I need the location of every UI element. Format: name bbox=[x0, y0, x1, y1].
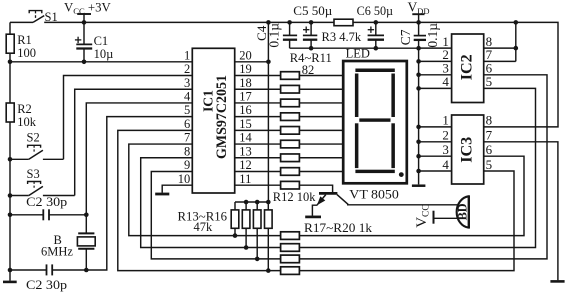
ground at rail bottom bbox=[412, 184, 426, 187]
wire pin8 bus2 bbox=[141, 88, 536, 247]
svg-text:C2 30p: C2 30p bbox=[26, 195, 67, 209]
svg-text:IC3: IC3 bbox=[458, 137, 475, 163]
svg-text:4: 4 bbox=[442, 74, 449, 89]
svg-text:R12 10k: R12 10k bbox=[273, 190, 316, 204]
svg-text:1: 1 bbox=[442, 113, 449, 128]
label R2 value 10k bbox=[17, 102, 37, 129]
wire R12 to VT base bbox=[299, 185, 332, 192]
resistor R11 bbox=[281, 168, 300, 176]
label GMS97C2051 bbox=[214, 75, 230, 159]
LED display box bbox=[343, 61, 407, 183]
wire top rail S1 to R3 bbox=[44, 21, 334, 23]
svg-text:9: 9 bbox=[184, 158, 190, 172]
label C4 value 0.1u bbox=[267, 23, 282, 48]
svg-text:7: 7 bbox=[486, 128, 493, 143]
wire pin10 to ground bbox=[162, 185, 192, 193]
resistor R1 bbox=[6, 34, 14, 53]
wire VT collector to buzzer bbox=[347, 204, 458, 206]
LED segment c bbox=[391, 123, 395, 168]
label LED bbox=[346, 47, 370, 61]
svg-text:10µ: 10µ bbox=[94, 47, 114, 61]
wire pin3 to S3 bbox=[75, 89, 193, 195]
capacitor C5 electrolytic bbox=[303, 20, 317, 50]
resistor R8 bbox=[281, 127, 300, 135]
wire IC2 pin1 bbox=[419, 47, 452, 49]
svg-text:R1: R1 bbox=[17, 33, 32, 47]
svg-text:14: 14 bbox=[239, 131, 252, 145]
wire IC3 pin7 to bottom ground bbox=[484, 142, 558, 280]
svg-text:20: 20 bbox=[239, 48, 252, 62]
wire VT emitter to ground bbox=[312, 205, 317, 216]
svg-text:5: 5 bbox=[486, 74, 493, 89]
wire top rail left segment to S1 bbox=[10, 21, 33, 23]
resistor R18 bbox=[281, 244, 300, 252]
svg-text:0.1µ: 0.1µ bbox=[267, 23, 282, 48]
svg-text:1: 1 bbox=[184, 48, 190, 62]
wire IC1 pin16 to LED segment bbox=[235, 116, 344, 118]
wire IC1 pin19 to LED segment bbox=[235, 75, 344, 77]
label C7 bbox=[398, 29, 413, 45]
crystal B 6MHz bbox=[77, 233, 95, 272]
resistor R14 bbox=[242, 202, 250, 250]
svg-text:C5 50µ: C5 50µ bbox=[293, 4, 332, 18]
ground at VT emitter bbox=[305, 216, 321, 219]
wire IC1 pin12 to LED segment bbox=[235, 170, 344, 172]
node VCC +3V terminal bbox=[77, 14, 91, 25]
resistor R2 bbox=[6, 103, 14, 122]
ground bottom-right bbox=[550, 280, 564, 283]
svg-text:6MHz: 6MHz bbox=[41, 245, 73, 259]
node VDD terminal bbox=[412, 14, 424, 25]
svg-text:LED: LED bbox=[346, 47, 370, 61]
capacitor C2 upper 30p bbox=[8, 209, 89, 220]
label C2 30p lower bbox=[26, 278, 67, 292]
capacitor C6 electrolytic bbox=[368, 20, 384, 50]
LED segment f bbox=[355, 74, 359, 118]
svg-text:10k: 10k bbox=[17, 115, 37, 129]
label B 6MHz bbox=[41, 233, 73, 259]
capacitor C4 bbox=[283, 20, 297, 48]
wire pin9 bus3 bbox=[151, 75, 547, 259]
wire IC3 pin3 bbox=[419, 155, 452, 157]
resistor R3 bbox=[334, 19, 353, 26]
node VCC at buzzer bbox=[434, 211, 459, 224]
svg-text:S3: S3 bbox=[27, 167, 40, 181]
svg-text:15: 15 bbox=[239, 117, 252, 131]
IC1 right pin numbers 20-11 bbox=[239, 48, 252, 185]
wire IC2 pin8 pin7 to VDD bbox=[484, 22, 518, 61]
svg-text:0.1µ: 0.1µ bbox=[425, 23, 440, 48]
svg-text:47k: 47k bbox=[194, 220, 214, 234]
resistor R13 bbox=[231, 202, 239, 238]
resistor R15 bbox=[253, 202, 261, 261]
IC3 right pin numbers bbox=[486, 113, 493, 172]
wire left rail top bbox=[9, 22, 11, 35]
resistor R10 bbox=[281, 154, 300, 162]
wire pin7 bus1 bbox=[129, 144, 524, 236]
wire pin2 to S2 bbox=[64, 76, 193, 160]
IC1 left pin numbers 1-10 bbox=[178, 48, 191, 185]
svg-text:GMS97C2051: GMS97C2051 bbox=[214, 75, 230, 159]
capacitor C7 bbox=[414, 22, 426, 50]
label C2 30p upper bbox=[26, 195, 67, 209]
svg-text:6: 6 bbox=[486, 142, 493, 157]
label S3 bbox=[27, 167, 40, 181]
label S2 bbox=[27, 131, 40, 145]
label R4~R11 bbox=[290, 51, 332, 65]
wire ground rail right bbox=[416, 48, 421, 184]
switch S3 bbox=[8, 182, 75, 198]
wire pin6 bus4 bbox=[118, 130, 514, 270]
wire capacitor common ground bbox=[290, 47, 419, 49]
wire VDD feed down to 47k rail bbox=[235, 20, 271, 204]
label R1 value 100 bbox=[17, 33, 36, 60]
svg-text:C6 50µ: C6 50µ bbox=[357, 4, 394, 18]
transistor Q1 VT 8050 bbox=[317, 193, 348, 205]
svg-text:19: 19 bbox=[239, 62, 252, 76]
svg-text:8: 8 bbox=[486, 113, 493, 128]
wire IC1 pin14 to LED segment bbox=[235, 143, 344, 145]
label C4 bbox=[254, 25, 269, 41]
wire top rail to right corner bbox=[353, 20, 558, 127]
label 47k bbox=[194, 220, 214, 234]
svg-text:S2: S2 bbox=[27, 131, 40, 145]
wire IC3 pin1 bbox=[419, 126, 452, 128]
wire IC3 pin4 bbox=[419, 170, 452, 172]
svg-text:R2: R2 bbox=[17, 102, 32, 116]
svg-text:8: 8 bbox=[184, 144, 190, 158]
svg-text:16: 16 bbox=[239, 103, 252, 117]
label C1 value 10u bbox=[94, 34, 114, 61]
svg-text:VCC +3V: VCC +3V bbox=[64, 1, 112, 16]
wire pin5 to crystal bottom bbox=[52, 117, 192, 270]
wire IC2 pin4 bbox=[419, 87, 452, 89]
label C6 50u bbox=[357, 4, 394, 18]
IC2 left pin numbers bbox=[442, 34, 449, 89]
svg-text:10: 10 bbox=[178, 172, 191, 186]
ground bottom-left bbox=[3, 270, 17, 282]
switch S2 bbox=[8, 145, 64, 161]
wire pin20 VDD bbox=[235, 60, 271, 65]
LED segment e bbox=[355, 123, 359, 168]
LED segment d bbox=[355, 170, 394, 173]
label IC3 bbox=[458, 137, 475, 163]
wire IC1 pin15 to LED segment bbox=[235, 129, 344, 131]
svg-text:R17~R20 1k: R17~R20 1k bbox=[304, 221, 373, 235]
label R13~R16 bbox=[178, 210, 228, 224]
IC3 box bbox=[452, 115, 484, 184]
LED decimal point bbox=[399, 172, 404, 177]
resistor R17 bbox=[281, 232, 300, 240]
label R17~R20 1k bbox=[304, 221, 373, 235]
LED segment b bbox=[391, 74, 395, 118]
svg-text:82: 82 bbox=[302, 63, 315, 77]
capacitor C2 lower 30p bbox=[8, 264, 53, 275]
label C5 50u bbox=[293, 4, 332, 18]
capacitor C1 electrolytic bbox=[75, 22, 92, 64]
label C7 value 0.1u bbox=[425, 23, 440, 48]
resistor R19 bbox=[281, 255, 300, 263]
op-amp U1 IC1 box bbox=[192, 48, 234, 193]
svg-text:3: 3 bbox=[184, 76, 190, 90]
IC3 left pin numbers bbox=[442, 113, 449, 172]
svg-text:18: 18 bbox=[239, 76, 252, 90]
label IC1 bbox=[202, 90, 217, 112]
label BD bbox=[455, 203, 470, 220]
svg-text:2: 2 bbox=[184, 62, 190, 76]
svg-text:12: 12 bbox=[239, 158, 252, 172]
resistor R4 bbox=[281, 72, 300, 80]
IC2 right pin numbers bbox=[486, 34, 493, 89]
switch S1 bbox=[29, 11, 44, 23]
svg-text:6: 6 bbox=[184, 117, 190, 131]
svg-text:VT 8050: VT 8050 bbox=[349, 188, 399, 202]
svg-text:17: 17 bbox=[239, 90, 252, 104]
IC2 box bbox=[452, 34, 484, 103]
resistor R7 bbox=[281, 113, 300, 121]
label S1 bbox=[45, 10, 58, 24]
wire IC1 pin17 to LED segment bbox=[235, 102, 344, 104]
LED segment g bbox=[359, 118, 390, 121]
svg-text:4: 4 bbox=[184, 90, 191, 104]
buzzer BD bbox=[457, 195, 469, 228]
label 82 bbox=[302, 63, 315, 77]
label IC2 bbox=[458, 54, 475, 80]
svg-text:100: 100 bbox=[17, 46, 36, 60]
svg-text:5: 5 bbox=[486, 157, 493, 172]
wire IC1 pin18 to LED segment bbox=[235, 88, 344, 90]
label VCC at buzzer bbox=[414, 204, 432, 228]
ground at IC1 pin10 bbox=[155, 193, 169, 196]
wire IC1 pin13 to LED segment bbox=[235, 157, 344, 159]
label VCC +3V bbox=[64, 1, 112, 16]
label R12 10k bbox=[273, 190, 316, 204]
resistor R12 bbox=[281, 181, 300, 189]
svg-text:11: 11 bbox=[239, 172, 251, 186]
svg-text:5: 5 bbox=[184, 103, 190, 117]
label VDD bbox=[408, 0, 430, 16]
wire left rail R2 down to ground corner bbox=[9, 122, 11, 270]
wire IC2 pin2 bbox=[419, 60, 452, 62]
resistor R6 bbox=[281, 99, 300, 107]
resistor R20 bbox=[281, 267, 300, 275]
svg-text:C2 30p: C2 30p bbox=[26, 278, 67, 292]
resistor R16 bbox=[265, 202, 273, 273]
wire pin1 reset net bbox=[10, 61, 192, 63]
svg-text:4: 4 bbox=[442, 157, 449, 172]
label VT 8050 bbox=[349, 188, 399, 202]
wire IC1 pin11 to R12 bbox=[235, 184, 281, 186]
label R3 4.7k bbox=[322, 30, 362, 44]
svg-text:3: 3 bbox=[442, 142, 449, 157]
wire IC3 pin2 bbox=[419, 141, 452, 143]
svg-text:13: 13 bbox=[239, 144, 252, 158]
svg-text:7: 7 bbox=[184, 131, 190, 145]
wire left rail R1 to R2 bbox=[8, 53, 13, 104]
wire pin4 to crystal top bbox=[86, 103, 192, 233]
svg-text:C1: C1 bbox=[94, 34, 109, 48]
svg-text:C7: C7 bbox=[398, 29, 413, 45]
resistor R9 bbox=[281, 140, 300, 148]
LED segment a bbox=[355, 69, 394, 73]
svg-text:2: 2 bbox=[442, 128, 449, 143]
wire IC2 pin3 bbox=[419, 74, 452, 76]
resistor R5 bbox=[281, 85, 300, 93]
svg-text:R3 4.7k: R3 4.7k bbox=[322, 30, 362, 44]
svg-text:IC2: IC2 bbox=[458, 54, 475, 80]
